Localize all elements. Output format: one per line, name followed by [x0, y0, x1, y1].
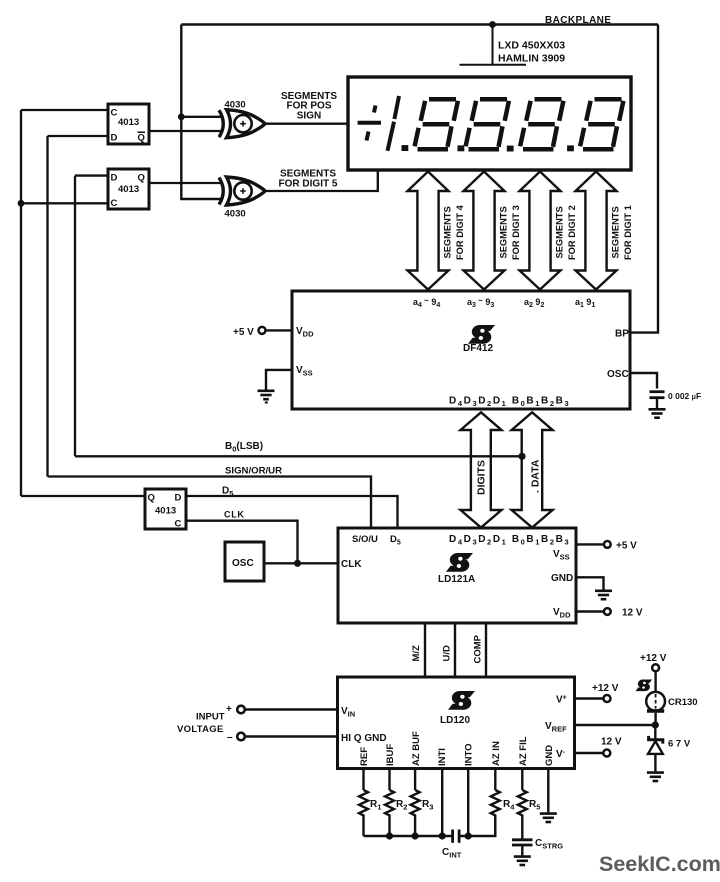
svg-text:4013: 4013 [118, 117, 139, 128]
wire CLK from 4013#3 C [186, 521, 298, 564]
svg-text:SEGMENTS: SEGMENTS [555, 206, 565, 258]
wire left bus 3 (b0) [74, 176, 76, 457]
bus arrow DIGITS [461, 412, 502, 527]
bus arrow DATA [512, 412, 553, 527]
svg-text:FOR DIGIT 1: FOR DIGIT 1 [623, 205, 633, 260]
wire D5 output to LD121A [186, 496, 398, 528]
capacitor C_INT [453, 830, 460, 843]
svg-text:HAMLIN 3909: HAMLIN 3909 [498, 53, 565, 65]
svg-text:Q: Q [148, 493, 155, 504]
svg-text:SIGN: SIGN [297, 110, 321, 121]
display digit 8 (pos 3) [466, 99, 509, 149]
wire VSS to +5V [576, 543, 604, 545]
node junction VREF [652, 721, 659, 728]
svg-text:Q: Q [138, 173, 145, 184]
svg-text:SEGMENTS: SEGMENTS [499, 206, 509, 258]
counter U5 LD121A [338, 528, 576, 623]
ground (C_STRG) [514, 857, 531, 865]
display decimal points [402, 145, 574, 151]
wire pin AZ BUF lead [414, 769, 416, 791]
wire bottom bus left of C_INT [364, 835, 452, 837]
wire pin GND lead [547, 769, 549, 813]
wire B0(LSB) [75, 455, 522, 457]
wire HI Q GND input [245, 735, 338, 737]
wire 4013#2 C to left bus [21, 202, 108, 204]
wire left bus 2 (sign) [46, 136, 48, 477]
wire U/D pin [454, 623, 456, 677]
labels bottom pins rotated [359, 731, 555, 766]
display digit 1 [388, 96, 400, 151]
flip-flop 4013 #1 [108, 104, 149, 144]
svg-text:U/D: U/D [442, 645, 453, 662]
wire COMP pin [485, 623, 487, 677]
svg-text:+5 V: +5 V [616, 541, 637, 552]
flip-flop 4013 #3 [145, 489, 186, 530]
node junction CLK [294, 560, 301, 567]
svg-text:BP: BP [615, 329, 629, 340]
svg-text:4030: 4030 [225, 209, 246, 220]
bus arrow segments digit 1 [576, 172, 617, 290]
wire SIGN/OR/UR [48, 477, 372, 529]
svg-text:D: D [175, 493, 182, 504]
terminal +5V (LD121A VSS) [604, 541, 611, 548]
display plus-minus sign [358, 106, 381, 141]
logo siliconix DF412 [468, 325, 495, 344]
svg-text:4030: 4030 [225, 100, 246, 111]
svg-text:0 002 μF: 0 002 μF [668, 391, 701, 401]
wire 4013#2 Q to XOR2 top input [149, 182, 222, 184]
converter U6 LD120 [338, 677, 575, 769]
svg-text:INPUT: INPUT [196, 712, 225, 723]
svg-text:B0(LSB): B0(LSB) [225, 441, 263, 454]
svg-text:FOR DIGIT 4: FOR DIGIT 4 [455, 204, 465, 260]
logo siliconix CR130 [636, 680, 653, 692]
display digit 8 (pos 4) [520, 99, 563, 149]
node junction B0 to DATA bus [518, 453, 525, 460]
wire CR130 to node [654, 713, 656, 725]
svg-text:GND: GND [551, 573, 573, 584]
ground (LD120 GND pin) [540, 814, 557, 822]
svg-text:S/O/U: S/O/U [352, 534, 378, 545]
resistor R3 [411, 790, 420, 836]
svg-text:FOR DIGIT 2: FOR DIGIT 2 [567, 205, 577, 260]
ground (zener) [647, 773, 664, 781]
wire pin REF lead [362, 769, 364, 791]
svg-text:SIGN/OR/UR: SIGN/OR/UR [225, 466, 282, 477]
capacitor C_STRG [512, 840, 533, 845]
node junction left bus C [18, 200, 25, 207]
terminal 12V (LD121A VDD) [604, 608, 611, 615]
svg-text:FOR DIGIT 3: FOR DIGIT 3 [511, 205, 521, 260]
logo siliconix LD121A [446, 553, 473, 572]
ground (osc cap) [649, 409, 666, 417]
svg-text:CLK: CLK [224, 510, 245, 520]
svg-text:REF: REF [359, 747, 370, 766]
wire V+ to +12V [575, 697, 604, 699]
svg-text:SeekIC.com: SeekIC.com [599, 852, 720, 876]
wire XOR1 output to display [264, 123, 348, 125]
svg-text:6 7 V: 6 7 V [668, 739, 691, 750]
node junction bottom bus AZ BUF [412, 832, 419, 839]
resistor R4 [491, 790, 500, 836]
terminal +12V (LD120 V+) [604, 695, 611, 702]
svg-text:SEGMENTS: SEGMENTS [611, 206, 621, 258]
wire VIN input [245, 708, 338, 710]
wire OSC to CLK pin [264, 562, 338, 564]
node junction backplane label stub [489, 21, 496, 28]
resistor R2 [385, 790, 394, 836]
svg-text:4013: 4013 [155, 506, 176, 517]
ground (DF412 VSS) [258, 391, 275, 399]
ground (LD121A) [595, 591, 612, 599]
wire OSC to cap [630, 373, 657, 389]
svg-text:CR130: CR130 [668, 697, 698, 708]
wire VSS to ground [266, 370, 292, 390]
flip-flop 4013 #2 [108, 169, 149, 209]
decoder/driver U4 DF412 [292, 291, 630, 409]
wire backplane top horizontal [181, 23, 658, 25]
bus arrow segments digit 2 [520, 172, 561, 290]
svg-text:12 V: 12 V [601, 737, 622, 748]
wire D5 from left bus to 4013#3 Q [21, 495, 145, 497]
wire backplane right vertical to BP [630, 25, 658, 333]
svg-text:BACKPLANE: BACKPLANE [545, 15, 611, 26]
wire V- to 12V [575, 752, 604, 754]
display digit 8 (pos 2) [415, 99, 458, 149]
wire XOR1 top input [181, 116, 222, 118]
svg-text:LD120: LD120 [440, 715, 470, 726]
svg-text:C: C [111, 108, 118, 119]
svg-text:INTI: INTI [437, 748, 448, 766]
svg-text:AZ BUF: AZ BUF [411, 731, 422, 766]
gate 4030 XOR2 [219, 177, 265, 205]
wire bottom bus right of C_INT [460, 815, 495, 837]
svg-text:DF412: DF412 [463, 343, 493, 354]
svg-text:IBUF: IBUF [385, 744, 396, 766]
wire pin INTO lead [467, 769, 469, 837]
svg-text:M/Z: M/Z [411, 645, 422, 662]
svg-text:+5 V: +5 V [233, 327, 254, 338]
node junction bottom bus INTO [465, 832, 472, 839]
svg-text:D: D [111, 173, 118, 184]
svg-text:INTO: INTO [464, 743, 475, 766]
svg-text:HI Q GND: HI Q GND [341, 733, 387, 744]
svg-text:12 V: 12 V [622, 608, 643, 619]
wire +5V to VDD [266, 329, 292, 331]
svg-text:GND: GND [544, 745, 555, 766]
svg-text:–: – [227, 732, 233, 743]
bus arrow segments digit 3 [464, 172, 505, 290]
wire pin IBUF lead [388, 769, 390, 791]
wire backplane left vertical down to XOR2 input [181, 25, 222, 200]
capacitor 0.002uF [650, 392, 665, 398]
svg-text:C: C [111, 198, 118, 209]
svg-text:AZ FIL: AZ FIL [518, 736, 529, 766]
LCD display module [348, 77, 631, 170]
node junction bottom bus INTI [439, 832, 446, 839]
wire pin AZ FIL lead [521, 769, 523, 791]
zener diode 6.7V [648, 736, 663, 754]
svg-text:+12 V: +12 V [640, 653, 667, 664]
wire 4013#2 D to left bus [75, 174, 108, 176]
svg-text:OSC: OSC [607, 369, 629, 380]
wire 4013#1 Qbar to XOR1 bottom input [149, 130, 222, 132]
svg-text:+12 V: +12 V [592, 683, 619, 694]
node junction bottom bus IBUF [386, 832, 393, 839]
wire 4013#1 C to left bus [21, 109, 108, 111]
svg-text:C: C [175, 519, 182, 530]
svg-text:VOLTAGE: VOLTAGE [177, 724, 224, 735]
resistor R1 [359, 790, 368, 836]
oscillator OSC box [225, 542, 264, 581]
logo siliconix LD120 [448, 691, 475, 710]
svg-text:+: + [226, 704, 232, 715]
wire 4013#1 D to left bus [48, 135, 109, 137]
wire pin INTI lead [441, 769, 443, 837]
node junction backplane / XOR1 input [178, 113, 185, 120]
svg-text:AZ IN: AZ IN [491, 741, 502, 766]
wire zener to ground [654, 754, 656, 772]
svg-text:CLK: CLK [341, 559, 362, 570]
svg-text:DIGITS: DIGITS [476, 460, 488, 495]
wire +12V to CR130 [654, 671, 656, 692]
svg-text:4013: 4013 [118, 184, 139, 195]
gate 4030 XOR1 [219, 110, 265, 138]
display digit 8 (pos 5) [580, 99, 623, 149]
wire VREF to zener node [575, 724, 656, 726]
wire label stub LXD [460, 25, 527, 65]
wire VDD to 12V [576, 610, 604, 612]
svg-text:FOR DIGIT 5: FOR DIGIT 5 [279, 178, 338, 189]
current regulator CR130 [646, 692, 665, 711]
svg-text:D: D [111, 133, 118, 144]
svg-text:. DATA: . DATA [530, 459, 542, 493]
resistor R5 [518, 790, 527, 839]
pin labels a4-g4 row [413, 296, 595, 309]
wire pin AZ IN lead [494, 769, 496, 791]
svg-text:LXD 450XX03: LXD 450XX03 [498, 40, 565, 52]
svg-text:Q: Q [138, 133, 145, 144]
wire M/Z pin [424, 623, 426, 677]
wire node to zener [654, 725, 656, 739]
terminal 12V (LD120 V-) [603, 750, 610, 757]
wire GND to ground [576, 577, 604, 590]
svg-text:SEGMENTS: SEGMENTS [443, 206, 453, 258]
bus arrow segments digit 4 [408, 172, 449, 290]
wire XOR2 output to display bottom [264, 171, 378, 191]
svg-text:OSC: OSC [232, 558, 254, 569]
wire left bus 1 (clock) [20, 110, 22, 496]
svg-text:LD121A: LD121A [438, 574, 475, 585]
svg-text:COMP: COMP [473, 634, 484, 663]
